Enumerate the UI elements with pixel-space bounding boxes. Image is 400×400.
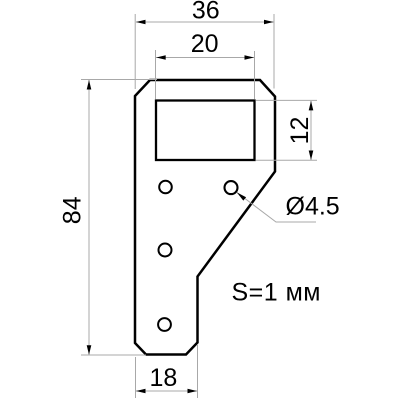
rectangular hole 20x12: [156, 101, 255, 161]
dim18 dimension line: [136, 390, 197, 392]
dim12 arrow bottom: [309, 151, 314, 161]
hole bottom: [158, 318, 171, 331]
svg-text:S=1 мм: S=1 мм: [232, 279, 322, 307]
dim18 arrow right: [188, 389, 198, 394]
hole top-right (leader target): [225, 181, 238, 194]
svg-text:12: 12: [286, 117, 314, 145]
svg-text:36: 36: [192, 0, 220, 24]
hole top-left: [159, 181, 172, 194]
dim36 extension line left: [134, 14, 136, 89]
dim84 dimension line: [88, 80, 90, 355]
svg-text:Ø4.5: Ø4.5: [286, 193, 340, 221]
svg-text:20: 20: [191, 30, 219, 58]
dim84 extension line top: [81, 79, 157, 81]
dim20 extension line right: [254, 51, 256, 99]
dim84 arrow bottom: [87, 345, 92, 355]
dim20 extension line left: [155, 50, 157, 99]
dim18 extension line left: [135, 357, 137, 398]
svg-text:84: 84: [58, 196, 86, 224]
dim18 extension line right: [197, 345, 199, 398]
dim84 arrow top: [87, 80, 92, 90]
dim36 arrow left: [136, 20, 146, 25]
part outline: [135, 80, 275, 355]
dim12 arrow top: [309, 101, 314, 111]
svg-text:18: 18: [149, 364, 177, 392]
leader arrow: [237, 192, 246, 200]
leader line for diameter callout: [237, 192, 316, 222]
dim12 extension line bottom: [256, 159, 317, 161]
dim20 arrow right: [245, 55, 255, 60]
dim36 dimension line: [136, 21, 274, 23]
dim20 dimension line: [156, 57, 254, 59]
dim20 arrow left: [156, 55, 166, 60]
dim84 extension line bottom: [81, 354, 146, 356]
dim36 extension line right: [273, 14, 275, 89]
dim12 dimension line: [310, 101, 312, 160]
dim36 arrow right: [264, 20, 274, 25]
dim18 arrow left: [136, 389, 146, 394]
hole middle: [159, 244, 172, 257]
dim12 extension line top: [256, 99, 317, 101]
